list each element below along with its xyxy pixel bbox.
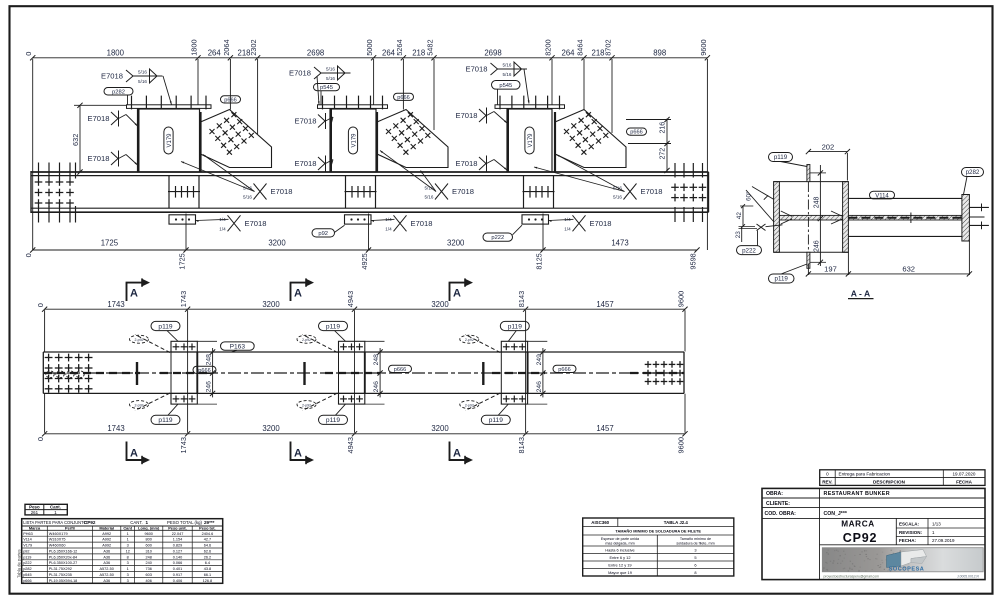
svg-text:736: 736 <box>146 567 152 571</box>
bottom cover plate with bolts unit 2 <box>345 215 372 224</box>
svg-text:Cant.: Cant. <box>50 505 61 510</box>
title block <box>762 488 985 579</box>
svg-text:246: 246 <box>373 381 380 393</box>
column unit 3 part label oval <box>525 127 534 154</box>
svg-text:A: A <box>294 288 302 300</box>
gusset plate unit 2 <box>377 110 448 168</box>
svg-text:8: 8 <box>127 555 129 559</box>
svg-text:1743: 1743 <box>107 300 124 309</box>
svg-text:898: 898 <box>653 48 666 57</box>
logo 3D mark <box>887 552 902 568</box>
column V179 unit 1 web plate <box>138 109 200 172</box>
elevation: left end bolt field (splice bolts) <box>38 163 40 179</box>
svg-text:V179: V179 <box>23 544 32 548</box>
gusset plate unit 3 <box>555 110 626 168</box>
svg-text:E7018: E7018 <box>289 68 311 77</box>
svg-text:264: 264 <box>208 48 222 57</box>
svg-text:Marca: Marca <box>29 525 41 530</box>
section A-A: vertical centerline <box>807 165 809 264</box>
svg-text:8125: 8125 <box>535 253 544 269</box>
section marker A at x=290.5 top <box>290 283 292 301</box>
svg-text:22.047: 22.047 <box>172 532 184 536</box>
svg-text:A: A <box>453 448 461 460</box>
elevation: 632 height dimension at left <box>79 105 81 172</box>
svg-text:E7018: E7018 <box>295 159 317 168</box>
svg-text:4943: 4943 <box>346 437 355 453</box>
plan connection 1: 249/246 flange mini dimension <box>212 348 214 397</box>
svg-text:5/16: 5/16 <box>326 76 335 81</box>
svg-text:248: 248 <box>146 555 152 559</box>
svg-text:p119: p119 <box>326 323 341 330</box>
svg-text:p119: p119 <box>775 276 789 283</box>
svg-text:A992: A992 <box>102 538 111 542</box>
svg-text:1725: 1725 <box>101 239 119 248</box>
svg-text:TABLA J2.4: TABLA J2.4 <box>664 520 689 525</box>
svg-text:p119: p119 <box>23 555 31 559</box>
svg-text:1743: 1743 <box>179 437 188 453</box>
svg-text:Long. (mm): Long. (mm) <box>138 525 160 530</box>
svg-text:A572-50: A572-50 <box>100 567 114 571</box>
svg-text:246: 246 <box>536 381 543 393</box>
svg-text:p222: p222 <box>491 235 504 241</box>
plan connection 1: dashed ovals 2-p92 <box>130 335 149 343</box>
plan connection 3: dashed ovals 2-p92 <box>460 335 479 343</box>
svg-text:A36: A36 <box>103 550 110 554</box>
svg-text:1800: 1800 <box>190 39 199 55</box>
svg-text:Peso tot.: Peso tot. <box>199 525 215 530</box>
svg-text:OBRA:: OBRA: <box>766 491 783 497</box>
svg-text:W310X75: W310X75 <box>49 538 66 542</box>
svg-text:PL31.75X235: PL31.75X235 <box>49 573 72 577</box>
svg-text:8143: 8143 <box>517 291 526 307</box>
svg-text:43.8: 43.8 <box>204 567 211 571</box>
svg-text:E7018: E7018 <box>295 116 317 125</box>
svg-text:RESTAURANT BUNKER: RESTAURANT BUNKER <box>824 491 890 497</box>
svg-text:p282: p282 <box>23 567 31 571</box>
section A-A: oval label V114 on beam <box>870 191 895 199</box>
svg-text:2-p92: 2-p92 <box>135 403 144 407</box>
svg-text:6: 6 <box>694 562 696 567</box>
svg-text:p119: p119 <box>774 154 788 161</box>
svg-text:3: 3 <box>127 573 129 577</box>
plan splice connection 1: stub plates <box>171 341 197 352</box>
svg-text:p282: p282 <box>966 169 980 176</box>
svg-text:E7018: E7018 <box>456 159 478 168</box>
unit3 right side 216/272 vertical dimension <box>666 119 668 172</box>
svg-text:600: 600 <box>146 544 152 548</box>
svg-text:Entre 6 y 12: Entre 6 y 12 <box>610 555 631 560</box>
svg-text:0: 0 <box>36 303 45 307</box>
svg-text:9600: 9600 <box>144 532 152 536</box>
svg-text:p282: p282 <box>112 89 125 95</box>
svg-text:1: 1 <box>127 567 129 571</box>
plan: right end bolt group <box>645 363 652 365</box>
svg-text:264: 264 <box>382 48 396 57</box>
elevation: top dim extension lines <box>32 59 34 250</box>
plan: beam flange outline <box>43 351 684 353</box>
svg-text:23: 23 <box>735 231 742 239</box>
svg-text:60°: 60° <box>745 191 753 201</box>
plan: hidden bolt circles at left end <box>46 371 54 378</box>
svg-text:V114: V114 <box>23 538 32 542</box>
svg-text:0.829: 0.829 <box>173 544 183 548</box>
svg-text:P163: P163 <box>230 343 246 350</box>
gusset unit 1 bolt x-marks <box>210 129 215 134</box>
section A-A: beam end plate p282 (hatched) <box>962 195 970 242</box>
column V179 unit 2 web plate <box>330 109 376 172</box>
svg-text:2-p92: 2-p92 <box>302 403 311 407</box>
svg-text:A36: A36 <box>103 555 110 559</box>
svg-text:p666: p666 <box>224 97 236 103</box>
svg-text:248: 248 <box>373 354 380 366</box>
svg-text:3200: 3200 <box>262 300 280 309</box>
section marker A at x=449.5 bottom <box>449 442 451 461</box>
web splice plate under column 1 <box>168 176 170 209</box>
svg-text:Entre 12 y 19: Entre 12 y 19 <box>608 562 631 567</box>
section marker A at x=449.5 top <box>449 283 451 301</box>
svg-text:3: 3 <box>127 561 129 565</box>
svg-text:Material: Material <box>99 525 114 530</box>
svg-text:4925: 4925 <box>360 253 369 269</box>
section A-A: oval label p119 top with leader <box>769 153 793 162</box>
section A-A: beam V114 to the right <box>848 197 963 199</box>
elevation: top dimension line <box>33 57 708 59</box>
svg-text:1.154: 1.154 <box>173 538 183 542</box>
plan connection 2: 249/246 flange mini dimension <box>379 348 381 397</box>
svg-text:6.4: 6.4 <box>205 561 210 565</box>
section A-A: column outline tips <box>774 181 849 183</box>
elevation: main beam flange lines (W460 girder) <box>31 171 709 173</box>
oval label near cap unit 1 with leader <box>104 88 133 96</box>
svg-text:42: 42 <box>736 212 743 220</box>
svg-text:p119: p119 <box>326 417 341 424</box>
svg-text:3200: 3200 <box>268 239 286 248</box>
logo noise speckles <box>843 551 844 552</box>
section A-A: 248/246 inner dimension <box>819 165 821 266</box>
svg-text:REVISION:: REVISION: <box>899 530 923 535</box>
svg-text:2-p92: 2-p92 <box>135 338 144 342</box>
svg-text:632: 632 <box>902 264 915 273</box>
svg-text:A: A <box>130 288 138 300</box>
plan: top dimension line <box>45 308 685 310</box>
plan connection 3: splice plate edges across beam <box>500 352 502 393</box>
svg-text:E7018: E7018 <box>411 219 433 228</box>
svg-text:1: 1 <box>127 532 129 536</box>
svg-text:A - A: A - A <box>851 288 870 298</box>
parts list table for assembly CP92 <box>22 519 223 584</box>
svg-text:218: 218 <box>412 48 425 57</box>
svg-text:2-p92: 2-p92 <box>465 403 474 407</box>
svg-text:Perfil: Perfil <box>65 525 75 530</box>
svg-text:0.401: 0.401 <box>173 567 183 571</box>
oval label p666 right of gusset 3 <box>627 128 647 135</box>
plan connection 3: hidden gusset diagonals <box>465 335 500 353</box>
svg-text:1/4: 1/4 <box>564 226 571 231</box>
svg-text:CLIENTE:: CLIENTE: <box>766 501 790 507</box>
svg-text:FECHA:: FECHA: <box>899 538 916 543</box>
svg-text:A572-50: A572-50 <box>100 573 114 577</box>
svg-text:1/13: 1/13 <box>932 521 941 526</box>
gusset unit 2 bolt x-marks <box>386 129 391 134</box>
svg-text:A992: A992 <box>102 532 111 536</box>
svg-text:p119: p119 <box>489 417 504 424</box>
plan: bottom dimension line <box>45 433 685 435</box>
svg-text:0: 0 <box>24 253 33 257</box>
title block MARCA cell <box>895 518 897 544</box>
svg-text:CP92: CP92 <box>84 520 96 525</box>
column unit 1 part label oval <box>164 127 173 154</box>
svg-text:REV.: REV. <box>822 479 832 484</box>
svg-text:V114: V114 <box>875 193 889 199</box>
gusset unit 3 bolt x-marks <box>564 129 569 134</box>
small Peso/Cant table <box>25 504 67 515</box>
svg-text:PL6.350X166-12: PL6.350X166-12 <box>49 550 78 554</box>
svg-text:PL6.350X20x-84: PL6.350X20x-84 <box>49 555 77 559</box>
svg-text:218: 218 <box>237 48 250 57</box>
svg-text:PL6.350X100-27: PL6.350X100-27 <box>49 561 78 565</box>
svg-text:A36: A36 <box>103 561 110 565</box>
svg-text:CP92: CP92 <box>843 531 877 545</box>
svg-text:p119: p119 <box>508 323 523 330</box>
svg-text:5/16: 5/16 <box>613 195 622 200</box>
plan connection 2: hidden gusset diagonals <box>303 335 338 353</box>
plan connection 3: column web edge (heavy) <box>482 362 484 385</box>
svg-text:632: 632 <box>71 134 80 146</box>
svg-text:E7018: E7018 <box>466 64 488 73</box>
plan connection 3: 249/246 flange mini dimension <box>542 348 544 397</box>
section A-A: web fillet weld funnels <box>781 211 792 216</box>
svg-text:5/16: 5/16 <box>425 195 434 200</box>
column unit 1 cap plate <box>127 105 212 109</box>
svg-text:DESCRIPCION: DESCRIPCION <box>873 479 906 484</box>
oval label p666 above gusset 2 <box>394 93 414 100</box>
svg-text:p545: p545 <box>499 83 512 89</box>
section A-A: small weld symbol at web <box>757 224 766 231</box>
svg-text:800: 800 <box>146 538 152 542</box>
svg-text:p666: p666 <box>558 367 570 373</box>
svg-text:1/4: 1/4 <box>219 226 226 231</box>
svg-text:J.0005.0012.R: J.0005.0012.R <box>957 574 980 578</box>
svg-text:p222: p222 <box>23 561 31 565</box>
svg-text:8200: 8200 <box>544 39 553 55</box>
svg-text:Cant: Cant <box>123 525 132 530</box>
svg-text:1725: 1725 <box>178 253 187 269</box>
svg-text:Hasta 6 inclusive: Hasta 6 inclusive <box>605 547 634 552</box>
oval label p666 above gusset 1 <box>221 96 241 103</box>
svg-text:42.7: 42.7 <box>204 538 211 542</box>
svg-text:W460X60: W460X60 <box>49 544 66 548</box>
svg-text:Tabla de partes: Tabla de partes <box>16 549 21 578</box>
svg-text:1800: 1800 <box>107 48 125 57</box>
svg-text:310: 310 <box>146 550 152 554</box>
oval label near cap unit 2 with leader <box>314 84 340 91</box>
svg-text:p92: p92 <box>23 550 29 554</box>
svg-text:2698: 2698 <box>484 48 501 57</box>
column unit 2 cap plate <box>318 105 388 109</box>
AISC weld size table <box>583 518 734 576</box>
plan connection 1: p119 oval labels with leaders <box>151 321 180 330</box>
svg-text:0.140: 0.140 <box>173 555 183 559</box>
svg-text:216: 216 <box>660 122 667 134</box>
svg-text:COD. OBRA:: COD. OBRA: <box>765 511 797 517</box>
svg-text:3: 3 <box>694 547 696 552</box>
svg-text:E7018: E7018 <box>101 71 123 80</box>
svg-text:1743: 1743 <box>179 291 188 307</box>
svg-text:TAMAÑO MINIMO DE SOLDADURA DE: TAMAÑO MINIMO DE SOLDADURA DE FILETE <box>615 528 701 533</box>
svg-text:CON_J***: CON_J*** <box>824 511 848 517</box>
svg-text:E7018: E7018 <box>245 219 267 228</box>
section marker A at x=126.5 top <box>126 283 128 301</box>
svg-text:PH63: PH63 <box>23 532 33 536</box>
svg-text:proyectoestructurasperu@gmail.: proyectoestructurasperu@gmail.com <box>824 574 880 578</box>
plan connection 1: column web edge (heavy) <box>136 362 138 385</box>
svg-text:5: 5 <box>694 555 696 560</box>
svg-text:9600: 9600 <box>677 437 686 453</box>
svg-text:249: 249 <box>536 354 543 366</box>
column unit 3 anchor bolts on cap <box>499 96 501 110</box>
svg-text:1/4: 1/4 <box>385 226 392 231</box>
svg-text:2698: 2698 <box>307 48 324 57</box>
svg-text:0: 0 <box>826 472 829 477</box>
section A-A: 202 dimension <box>808 151 847 153</box>
section A-A: oval label p282 with leader <box>962 168 984 177</box>
svg-text:A: A <box>130 448 138 460</box>
svg-text:V179: V179 <box>528 133 534 148</box>
svg-text:Peso: Peso <box>29 505 40 510</box>
svg-text:p119: p119 <box>158 417 173 424</box>
svg-text:5/16: 5/16 <box>326 67 335 72</box>
plan connection 3: p119 oval labels with leaders <box>500 321 529 330</box>
svg-text:202: 202 <box>822 142 835 151</box>
svg-text:p666: p666 <box>198 368 210 374</box>
plan connection 1: splice plate edges across beam <box>170 352 172 393</box>
svg-text:3: 3 <box>127 544 129 548</box>
column unit 2 part label oval <box>348 127 357 154</box>
svg-text:E7018: E7018 <box>641 187 663 196</box>
svg-text:5/16: 5/16 <box>138 79 147 84</box>
svg-text:p92: p92 <box>318 231 328 237</box>
svg-text:5/16: 5/16 <box>503 63 512 68</box>
section A-A: oval label p119 bottom with leader <box>769 274 795 283</box>
svg-text:3200: 3200 <box>431 424 449 433</box>
section A-A: column right flange (hatched) <box>843 182 849 253</box>
plan: P163 oval label <box>221 342 255 350</box>
svg-text:246: 246 <box>206 381 213 393</box>
svg-text:66.1: 66.1 <box>204 573 211 577</box>
svg-text:0.066: 0.066 <box>173 561 183 565</box>
svg-text:p666: p666 <box>23 579 31 583</box>
svg-text:E7018: E7018 <box>271 187 293 196</box>
svg-text:12: 12 <box>126 550 130 554</box>
svg-text:2-p92: 2-p92 <box>465 338 474 342</box>
svg-text:1457: 1457 <box>596 424 613 433</box>
elevation: bottom dim extension stubs <box>185 214 187 250</box>
plan connection 2: splice plate edges across beam <box>338 352 340 393</box>
svg-text:1743: 1743 <box>107 424 124 433</box>
section A-A: bottom 197 and 632 dimensions <box>808 273 969 275</box>
svg-text:5/16: 5/16 <box>243 195 252 200</box>
svg-text:p222: p222 <box>742 247 756 254</box>
oval label near cap unit 3 with leader <box>492 81 521 90</box>
plan: small part ovals on beam <box>193 366 216 373</box>
svg-text:1457: 1457 <box>596 300 613 309</box>
svg-text:A36: A36 <box>103 579 110 583</box>
svg-text:p666: p666 <box>630 130 642 136</box>
svg-text:A: A <box>453 288 461 300</box>
svg-text:9598: 9598 <box>689 253 698 269</box>
section A-A: end bolts <box>969 206 989 208</box>
svg-text:248: 248 <box>813 197 820 209</box>
svg-text:218: 218 <box>591 48 604 57</box>
svg-text:V179: V179 <box>167 133 173 148</box>
svg-text:272: 272 <box>660 148 667 160</box>
svg-text:5/16: 5/16 <box>503 72 512 77</box>
svg-text:Mayor que 19: Mayor que 19 <box>608 570 632 575</box>
svg-text:3200: 3200 <box>262 424 280 433</box>
web splice plate under column 2 <box>345 176 347 209</box>
svg-text:5482: 5482 <box>426 39 435 55</box>
section A-A: bevel angle annotation 60 <box>746 190 774 222</box>
elevation: top dim oblique ticks and rotated station labels <box>30 55 35 60</box>
svg-text:PL31.75X292: PL31.75X292 <box>49 567 72 571</box>
svg-text:p545: p545 <box>320 85 333 91</box>
svg-text:3: 3 <box>127 579 129 583</box>
web splice plate under column 3 <box>523 176 525 209</box>
svg-text:8464: 8464 <box>576 39 585 55</box>
svg-text:E7018: E7018 <box>88 114 110 123</box>
svg-text:PL19.05X594-18: PL19.05X594-18 <box>49 579 78 583</box>
bottom cover plate with bolts unit 3 <box>522 215 549 224</box>
section A-A: p119 stiffener bars top/bottom <box>807 165 810 182</box>
section A-A: column web (hatched) <box>779 215 842 220</box>
revision strip table <box>820 470 985 486</box>
svg-text:240: 240 <box>146 561 152 565</box>
section A-A: oval label p222 with leader <box>737 246 762 255</box>
svg-text:264: 264 <box>561 48 575 57</box>
svg-text:26.2: 26.2 <box>204 555 211 559</box>
svg-text:19.07.2020: 19.07.2020 <box>953 472 976 477</box>
oval label p92 lower left of unit2 cover plate <box>312 229 335 237</box>
svg-text:Peso unit.: Peso unit. <box>168 525 187 530</box>
svg-text:0: 0 <box>24 52 33 56</box>
svg-text:5000: 5000 <box>365 39 374 55</box>
gusset plate unit 1 <box>201 110 272 168</box>
svg-text:Entrega para Fabricacion: Entrega para Fabricacion <box>839 472 891 477</box>
svg-text:MARCA: MARCA <box>841 519 874 528</box>
svg-text:9600: 9600 <box>677 291 686 307</box>
svg-text:V179: V179 <box>351 133 357 148</box>
svg-text:E7018: E7018 <box>456 111 478 120</box>
svg-text:E7018: E7018 <box>452 187 474 196</box>
plan: beam center hidden/dash-dot line <box>44 372 684 374</box>
column V179 unit 3 web plate <box>507 109 552 172</box>
svg-text:p666: p666 <box>397 95 409 101</box>
svg-text:0: 0 <box>36 437 45 441</box>
svg-text:0.917: 0.917 <box>173 573 183 577</box>
plan connection 2: column web edge (heavy) <box>303 362 305 385</box>
elevation: bottom dimension line <box>33 249 697 251</box>
svg-text:62.6: 62.6 <box>204 550 211 554</box>
svg-text:2064: 2064 <box>222 39 231 55</box>
svg-text:1: 1 <box>127 538 129 542</box>
svg-text:A: A <box>294 448 302 460</box>
svg-text:E7018: E7018 <box>88 154 110 163</box>
section marker A at x=126.5 bottom <box>126 442 128 461</box>
svg-text:0.406: 0.406 <box>173 579 183 583</box>
svg-text:AISC360: AISC360 <box>591 520 609 525</box>
plan splice connection 3: stub plates <box>501 341 527 352</box>
svg-text:1473: 1473 <box>611 239 628 248</box>
